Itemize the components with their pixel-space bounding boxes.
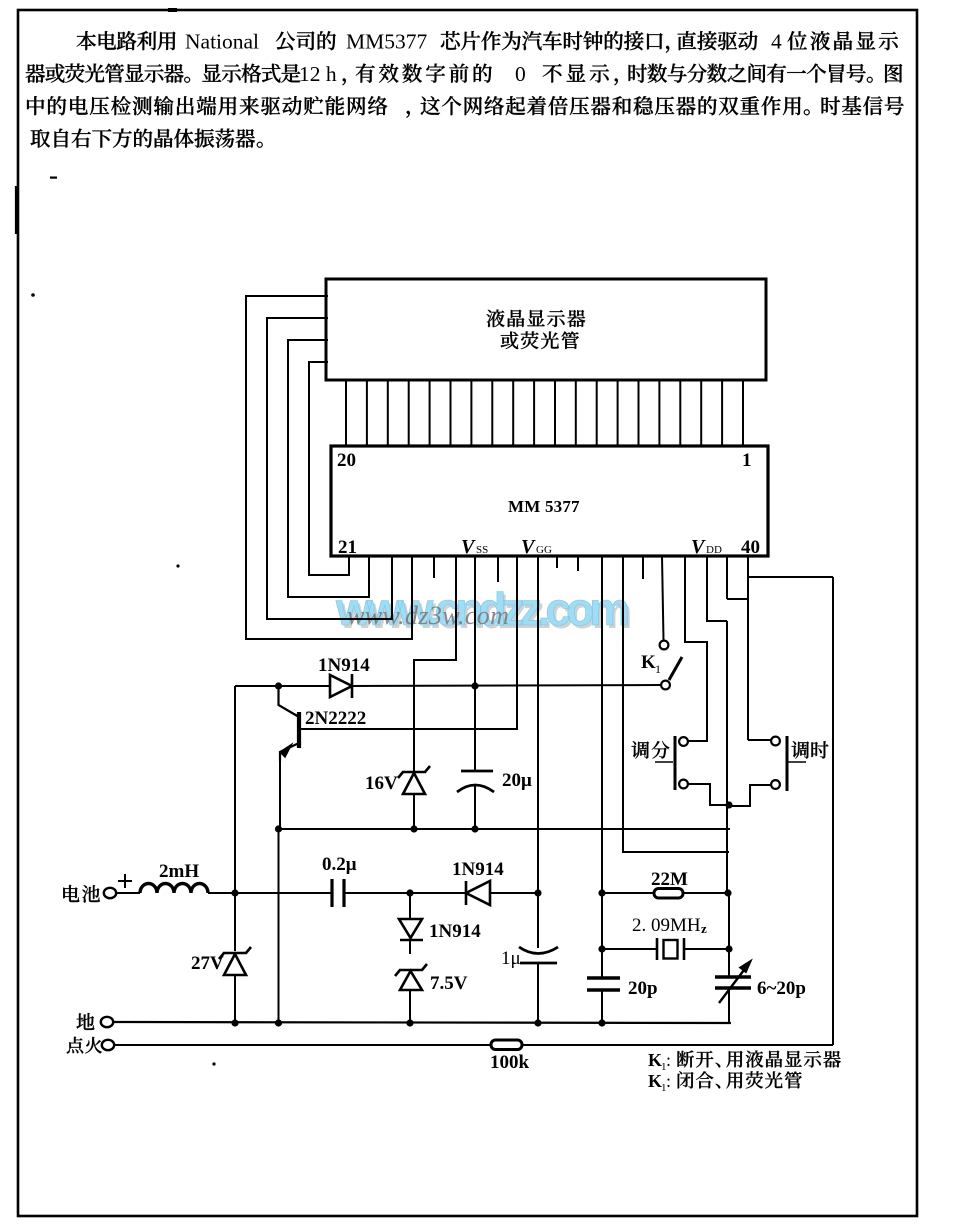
wire node to diode D3h (410, 892, 466, 894)
svg-text:SS: SS (476, 544, 488, 556)
junction button common (725, 801, 732, 808)
wire nest 3 (288, 340, 369, 597)
stub pin x=434 (433, 556, 435, 578)
wire VGG pin down to battery node (537, 556, 539, 893)
wire emitter rail (279, 828, 731, 830)
wire VSS pin down (474, 556, 476, 770)
wire to set-hour top contact (748, 739, 771, 741)
svg-text:1N914: 1N914 (429, 921, 481, 942)
junction rail-20u (471, 825, 478, 832)
svg-text:1μ: 1μ (501, 948, 521, 969)
wire pin(748) down to set-hour (747, 556, 749, 740)
diode D1 1N914 (330, 675, 352, 697)
junction 22M right (724, 889, 731, 896)
svg-text:z: z (701, 921, 707, 936)
wire VGG node down (537, 893, 539, 948)
svg-text:1: 1 (742, 450, 752, 471)
junction rail-emitter (275, 825, 282, 832)
svg-text:www.dz3w.com: www.dz3w.com (347, 601, 509, 630)
capacitor C2 20u (461, 770, 493, 773)
terminal 电池 (104, 888, 116, 898)
svg-text:100k: 100k (490, 1052, 530, 1073)
junction VGG node (534, 889, 541, 896)
wire pin(517) to transistor base (299, 556, 517, 729)
wire pin(685) to set-min button (685, 556, 707, 741)
zener D4 7.5V (395, 964, 427, 976)
junction ground x=278.5 (275, 1019, 282, 1026)
wire long column upper (726, 621, 728, 893)
label 调分 (632, 741, 650, 758)
IC U1 MM5377 (331, 446, 768, 556)
diode D2 1N914 vertical (409, 893, 411, 919)
stub pin x=578 (577, 556, 579, 571)
resistor R2 22M (654, 889, 683, 899)
junction collector node (275, 682, 282, 689)
svg-text:V: V (461, 536, 476, 558)
junction VSS node (471, 682, 478, 689)
svg-text:16V: 16V (365, 773, 398, 794)
stub pin x=643 (642, 556, 644, 579)
wire 1u to ground (537, 963, 539, 1023)
wire nest outer (display pin to IC pin 24) (246, 296, 412, 639)
svg-text:22M: 22M (651, 869, 688, 890)
svg-text:National: National (185, 30, 259, 54)
wire zener to rail (413, 794, 415, 829)
wire long column mid (728, 893, 730, 977)
pushbutton 调时 (set hours) (771, 737, 780, 746)
svg-text:20p: 20p (628, 978, 658, 999)
capacitor C1 0.2u (330, 879, 333, 907)
svg-text:2mH: 2mH (159, 861, 199, 882)
svg-text:K: K (648, 1071, 662, 1091)
label 电池 (63, 885, 79, 902)
wire pin to K1 (662, 556, 664, 640)
junction diode stack top (406, 889, 413, 896)
wire pin(623) to right column (623, 556, 729, 852)
switch K1 (660, 641, 669, 650)
wire crystal left (602, 948, 657, 950)
terminal 地 (101, 1017, 113, 1027)
svg-text:4: 4 (771, 30, 782, 54)
svg-text:6~20p: 6~20p (757, 978, 806, 999)
wire link to set-hour column (727, 598, 748, 600)
svg-text::: : (666, 1050, 671, 1070)
wire 20u to rail (474, 785, 476, 829)
junction crystal right (725, 945, 732, 952)
wire D2 to zener (409, 940, 411, 954)
svg-text:40: 40 (741, 537, 760, 558)
wire pin(727) down (726, 556, 728, 599)
svg-text:K: K (641, 652, 656, 673)
plus sign (118, 874, 132, 888)
wire pin(602) down to 20p (601, 556, 603, 978)
svg-text:K: K (648, 1050, 662, 1070)
wire zener to ground (409, 990, 411, 1023)
zener D3 16V (398, 766, 430, 778)
junction 22M left (598, 889, 605, 896)
intro paragraph (77, 31, 96, 50)
svg-text:2. 09MH: 2. 09MH (632, 915, 701, 936)
wire 20p to ground (601, 990, 603, 1023)
wire ground rail (113, 1022, 731, 1023)
wire nest 2 (267, 318, 392, 619)
terminal 点火 (102, 1040, 114, 1050)
svg-text:MM 5377: MM 5377 (508, 497, 580, 516)
zener D5 27V (219, 947, 251, 959)
inductor L1 2mH (140, 884, 208, 894)
pushbutton 调分 (set minutes) (679, 737, 688, 746)
crystal Y1 2.09MHz (656, 938, 659, 960)
svg-text:0.2μ: 0.2μ (322, 854, 357, 875)
svg-text:1N914: 1N914 (318, 655, 370, 676)
capacitor C4 20p (587, 976, 620, 979)
svg-text:MM5377: MM5377 (346, 30, 427, 54)
wire emitter column to ground (278, 829, 280, 1023)
junction ground x=602 (598, 1019, 605, 1026)
wire 27V zener to ground (234, 975, 236, 1023)
svg-text:1N914: 1N914 (452, 859, 504, 880)
wire ignition right (522, 1044, 833, 1046)
svg-text:1: 1 (655, 662, 661, 676)
wire node A vertical (234, 686, 236, 893)
wire 22M right (683, 892, 727, 894)
svg-text:21: 21 (338, 537, 357, 558)
wire pin(456) to zener column (414, 556, 456, 771)
svg-text:2N2222: 2N2222 (305, 708, 366, 729)
svg-text:DD: DD (706, 544, 722, 556)
wire right ignition column (832, 577, 834, 1045)
svg-text:7.5V: 7.5V (430, 973, 468, 994)
stub pin x=557 (556, 556, 558, 568)
junction crystal left (598, 945, 605, 952)
junction ground x=410 (406, 1019, 413, 1026)
wire battery to inductor (116, 892, 140, 894)
transistor Q1 2N2222 (279, 686, 300, 717)
capacitor C5 6~20p trimmer (715, 975, 751, 978)
junction battery node (231, 889, 238, 896)
svg-text:20: 20 (337, 450, 356, 471)
wire diode to K1 (352, 685, 661, 686)
wire VDD pin elbow (707, 556, 727, 621)
wire cap to diode stack (344, 892, 410, 894)
svg-text:0: 0 (515, 62, 526, 86)
svg-text:12 h: 12 h (299, 62, 337, 86)
resistor R1 100k (491, 1040, 522, 1050)
svg-text:GG: GG (536, 544, 552, 556)
svg-text:20μ: 20μ (502, 770, 532, 791)
junction ground x=538 (534, 1019, 541, 1026)
wire set-min bottom to junction (688, 784, 729, 805)
junction rail-zener (410, 825, 417, 832)
K1 blade (669, 657, 682, 680)
wire nest inner (309, 362, 349, 575)
svg-text:V: V (521, 536, 536, 558)
capacitor C3 1u (519, 947, 558, 954)
wire node A left segment (235, 685, 330, 687)
wire ignition left (114, 1044, 491, 1046)
wire set-hour bottom to junction (729, 785, 771, 806)
wire crystal right (684, 948, 729, 950)
wire 22M left (602, 892, 654, 894)
label 调时 (792, 741, 810, 758)
wire to 27V zener (234, 893, 236, 951)
wire emitter to rail (279, 760, 281, 829)
display-to-IC pin wires (20) (346, 380, 743, 446)
wire 6-20p to ground (728, 988, 730, 1023)
wire diode to VGG node (490, 892, 538, 894)
wire inductor to cap (208, 892, 331, 894)
label 地 (77, 1013, 95, 1030)
svg-text::: : (666, 1071, 671, 1091)
svg-text:27V: 27V (191, 953, 224, 974)
display box 液晶显示器/或荧光管 (326, 279, 766, 380)
stub pin x=498 (497, 556, 499, 582)
svg-text:V: V (691, 536, 706, 558)
junction ground x=235 (231, 1019, 238, 1026)
wire branch to ignition column (748, 576, 833, 578)
label 点火 (67, 1037, 83, 1054)
